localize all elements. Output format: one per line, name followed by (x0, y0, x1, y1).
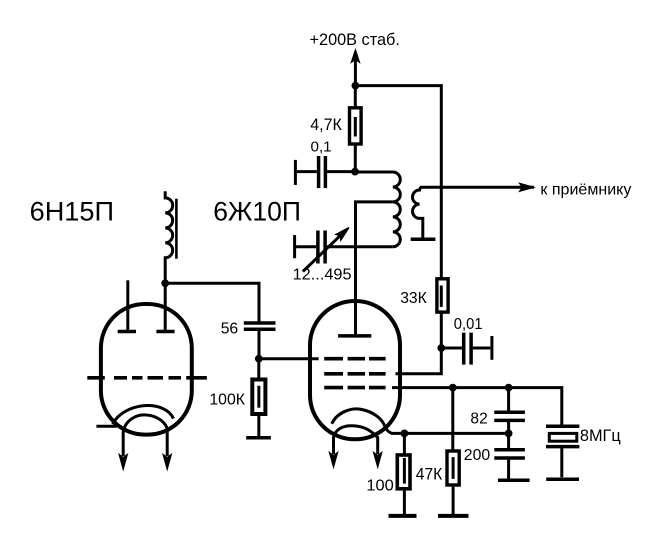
svg-text:200: 200 (464, 447, 491, 464)
coil L1 grid coil (165, 191, 176, 283)
V1 heater arrows (119, 454, 172, 470)
svg-text:0,01: 0,01 (454, 316, 483, 333)
V1 grid dashed line (87, 376, 207, 380)
ground bar of L3 (411, 238, 436, 242)
resistor R1 4,7K (350, 108, 362, 144)
resistor R4 100 (397, 433, 410, 514)
wire B+ rail to 33K branch (355, 86, 441, 279)
svg-text:33К: 33К (400, 289, 427, 307)
svg-text:100К: 100К (209, 391, 245, 408)
ground bar Z1 (546, 478, 579, 482)
V2 suppressor grid dashes (324, 386, 385, 390)
node F dot (449, 384, 457, 392)
wire node D to V2 control grid (259, 357, 319, 360)
svg-text:12...495: 12...495 (293, 266, 352, 283)
svg-text:82: 82 (470, 411, 487, 428)
svg-text:6Ж10П: 6Ж10П (213, 196, 301, 227)
node C dot (161, 279, 169, 287)
capacitor C3 0,01 (441, 333, 492, 365)
wire L2 tap to V2 anode (356, 202, 393, 336)
wire R1 to node A (354, 144, 357, 172)
capacitor C5 82 (494, 388, 525, 434)
node D dot (255, 355, 263, 363)
svg-text:100: 100 (366, 477, 393, 495)
svg-text:к приёмнику: к приёмнику (540, 181, 631, 198)
wire suppressor to crystal (392, 388, 562, 425)
ground bar R5 (438, 514, 469, 518)
V2 heater (334, 426, 378, 454)
node B dot (437, 344, 445, 352)
svg-text:47К: 47К (416, 466, 443, 484)
V2 heater arrows (329, 452, 382, 467)
V2 screen grid dashes (324, 372, 385, 376)
wire node B to V2 screen grid (396, 348, 442, 374)
V2 cathode and cathode wire (332, 409, 509, 433)
svg-text:56: 56 (221, 319, 239, 337)
coil L3 link winding (413, 187, 534, 237)
resistor R5 47K (447, 388, 459, 514)
node B+ junction dot (352, 82, 360, 90)
node A dot (351, 168, 359, 176)
ground bar R4 (389, 514, 417, 518)
svg-text:6Н15П: 6Н15П (30, 196, 114, 227)
crystal Z1 8MHz (546, 426, 579, 477)
svg-text:0,1: 0,1 (311, 139, 332, 156)
capacitor C2 variable 12...495 (295, 228, 393, 272)
node H dot (505, 430, 513, 438)
power arrow up (351, 50, 360, 87)
ground bar R3 (246, 436, 271, 440)
V1 cathode (96, 406, 173, 427)
ground bar C6 (498, 478, 530, 482)
wire node C to C4 (165, 283, 259, 321)
svg-text:8МГц: 8МГц (580, 427, 621, 445)
V1 left anode (118, 280, 136, 331)
V1 heater (123, 415, 167, 456)
svg-text:+200В стаб.: +200В стаб. (310, 31, 400, 49)
capacitor C6 200 (494, 433, 525, 478)
wire B+ to R1 (354, 86, 357, 107)
capacitor C4 56 (244, 323, 276, 359)
node G dot (505, 384, 513, 392)
output arrowhead (519, 183, 534, 191)
V1 right anode (156, 283, 174, 331)
V2 anode (338, 334, 371, 338)
capacitor C1 0,1 (295, 156, 355, 188)
tube V2 envelope (310, 301, 400, 439)
V2 control grid dashes (324, 357, 385, 361)
svg-text:4,7К: 4,7К (310, 116, 342, 134)
resistor R3 100K (252, 359, 265, 437)
node E cathode dot (401, 430, 409, 438)
tube V1 envelope (101, 304, 192, 435)
resistor R2 33K (437, 279, 448, 348)
coil L2 tank primary (355, 172, 400, 247)
